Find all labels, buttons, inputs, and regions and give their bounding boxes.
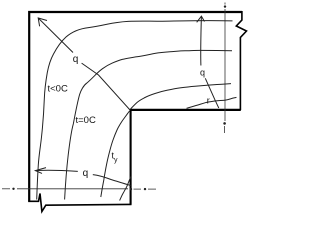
svg-text:q: q — [73, 54, 79, 65]
svg-text:q: q — [83, 168, 89, 179]
flow line q2 (right wall, vertical) — [201, 16, 219, 108]
arrowhead q3 — [35, 168, 46, 174]
flow line q3 (bottom wall, horizontal) — [35, 170, 130, 185]
svg-text:r: r — [207, 96, 210, 106]
node horizontal axis line (dash-dot) — [2, 188, 156, 191]
isotherm t=0C — [65, 50, 232, 199]
isotherm near corner, upper-right branch — [131, 84, 232, 109]
surface temperature curve right (near inner surface) — [187, 97, 237, 108]
wire right cut edge with break — [236, 11, 246, 110]
surface temperature curve bottom (near inner surface) — [120, 177, 131, 201]
arrowhead q1 — [38, 18, 47, 26]
node vertical axis line (dash-dot) — [223, 3, 226, 134]
svg-text:t<0C: t<0C — [48, 84, 68, 95]
wire bottom cut edge with break — [28, 194, 131, 212]
wall outer edge (top + left) — [29, 12, 242, 202]
isotherm near corner, lower-left branch — [101, 111, 130, 197]
isotherm t<0C (outermost) — [37, 21, 233, 200]
wall inner surface vertical — [130, 109, 132, 205]
svg-text:t=0C: t=0C — [76, 115, 96, 126]
arrowhead q2 — [197, 16, 205, 22]
svg-text:q: q — [200, 68, 205, 78]
flow line q1 (corner diagonal) — [38, 18, 130, 110]
wall inner surface horizontal — [131, 109, 241, 111]
